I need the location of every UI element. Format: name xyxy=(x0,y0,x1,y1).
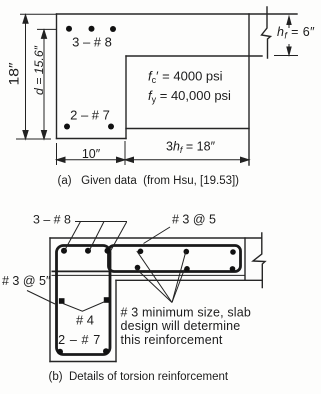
dimension hf = 6" (a) xyxy=(274,17,298,56)
svg-text:3 – # 8: 3 – # 8 xyxy=(33,213,71,227)
wire flange bottom edge (b) xyxy=(116,279,262,281)
dimension 18" (a) xyxy=(16,14,57,139)
dimension 10" (a) xyxy=(57,141,126,165)
dimension 3hf = 18" (a) xyxy=(125,157,249,162)
wire web bottom edge (b) xyxy=(50,361,116,363)
svg-text:3hf = 18″: 3hf = 18″ xyxy=(166,140,216,156)
svg-text:2 – # 7: 2 – # 7 xyxy=(58,333,101,347)
svg-text:10″: 10″ xyxy=(82,147,101,161)
break line zigzag (a) xyxy=(262,7,271,58)
wire right end cut line (b) xyxy=(244,238,246,280)
svg-text:(b) Details of torsion reinfo: (b) Details of torsion reinforcement xyxy=(49,371,229,383)
rebar dots 3-#8 (a) xyxy=(66,26,116,32)
svg-text:(a) Given data (from Hsu, [: (a) Given data (from Hsu, [19.53]) xyxy=(58,175,240,187)
svg-text:# 3 minimum size, slab: # 3 minimum size, slab xyxy=(121,306,251,320)
svg-text:fy = 40,000 psi: fy = 40,000 psi xyxy=(148,88,231,105)
leader # 3 @ 5 (b top) xyxy=(144,227,171,244)
stirrup web #3@5 (b) xyxy=(57,246,111,355)
rebar dots web bottom 2-#7 (b) xyxy=(57,348,109,355)
dimension d = 15.6" (a) xyxy=(37,29,57,139)
wire top edge of L-section (b) xyxy=(50,237,262,239)
wire right end cut line (a) xyxy=(248,14,250,165)
svg-text:# 4: # 4 xyxy=(76,313,94,328)
svg-text:3 – # 8: 3 – # 8 xyxy=(72,35,112,50)
wire web right edge (a) xyxy=(125,56,127,139)
wire web left edge (b) xyxy=(49,238,51,362)
slab bar line through web (b) xyxy=(52,270,111,272)
leader V # 4 (b) xyxy=(63,302,105,312)
wire web left edge (a) xyxy=(56,14,58,139)
stirrup slab #3@5 (b) xyxy=(109,246,241,272)
svg-text:this reinforcement: this reinforcement xyxy=(121,333,223,347)
svg-text:# 3 @ 5″: # 3 @ 5″ xyxy=(2,274,51,288)
svg-text:d = 15.6″: d = 15.6″ xyxy=(34,45,46,95)
wire top edge of L-section (a) xyxy=(57,13,298,15)
break line zigzag (b) xyxy=(253,233,265,288)
rebar dots slab top (b) xyxy=(138,249,236,255)
svg-text:18″: 18″ xyxy=(6,62,22,85)
slab lower thin line (b) xyxy=(52,274,246,276)
svg-text:fc′ = 4000 psi: fc′ = 4000 psi xyxy=(148,69,223,86)
wire web bottom edge (a) xyxy=(57,138,127,140)
leader fan to slab bars (b) xyxy=(135,251,186,303)
svg-text:2 – # 7: 2 – # 7 xyxy=(70,108,110,123)
rebar dots web mid #4 (b) xyxy=(59,297,110,304)
wire callout box bottom (a) xyxy=(126,128,249,130)
wire flange bottom edge (a) xyxy=(126,55,262,57)
rebar dots web top 3-#8 (b) xyxy=(61,248,111,254)
leader # 3 @ 5" (b left) xyxy=(27,291,55,305)
svg-text:# 3 @ 5: # 3 @ 5 xyxy=(172,213,216,227)
wire web right edge (b) xyxy=(115,280,117,361)
svg-text:hf = 6″: hf = 6″ xyxy=(277,25,315,41)
rebar dots 2-#7 (a) xyxy=(64,124,114,130)
rebar dots slab bottom (b) xyxy=(135,265,236,272)
svg-text:design will determine: design will determine xyxy=(121,319,241,333)
leader lines 3-#8 (b) xyxy=(64,222,127,252)
